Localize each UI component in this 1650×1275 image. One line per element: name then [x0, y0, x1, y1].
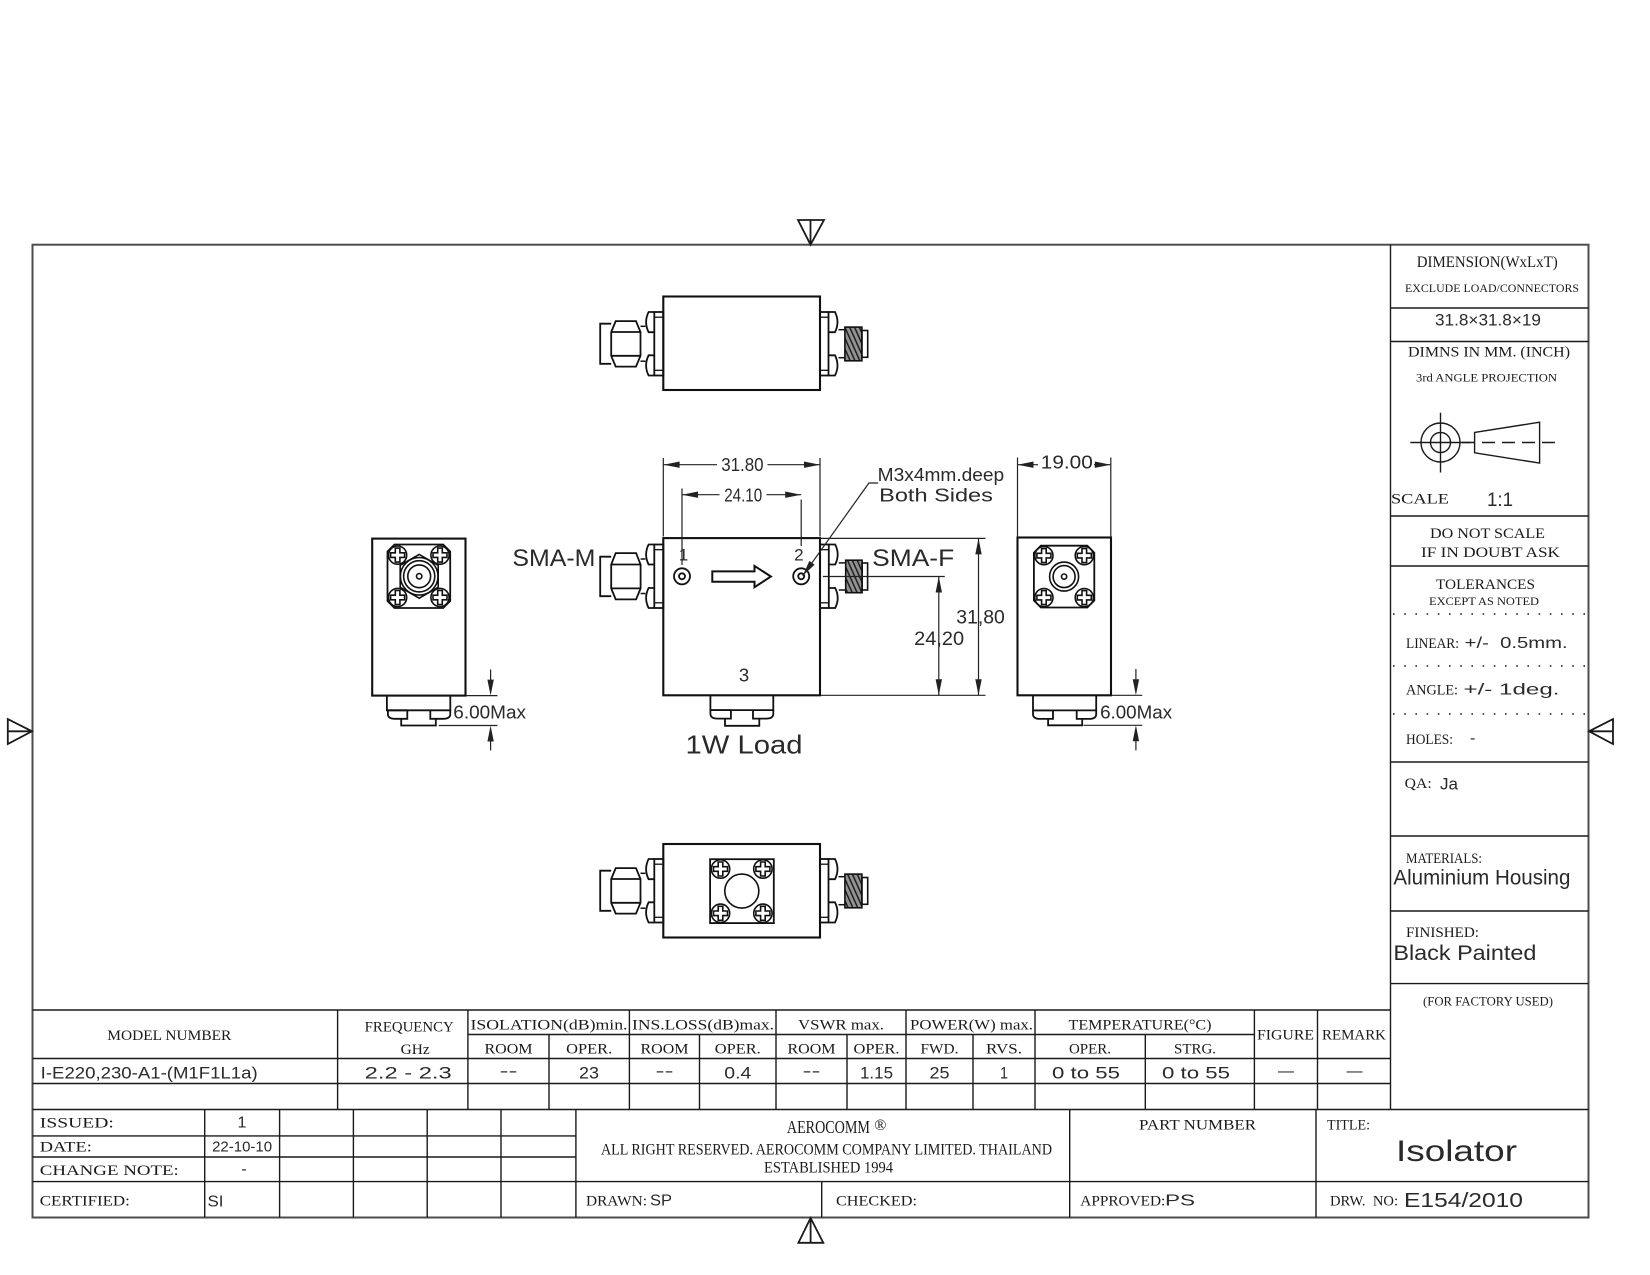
- svg-text:--: --: [656, 1063, 674, 1080]
- svg-text:SMA-F: SMA-F: [872, 545, 954, 572]
- dimension 24,20: [823, 577, 945, 696]
- svg-text:PART NUMBER: PART NUMBER: [1139, 1118, 1256, 1134]
- title block grid: [33, 1110, 1589, 1218]
- dotted separator 3: [1393, 713, 1585, 715]
- svg-text:OPER.: OPER.: [1069, 1042, 1111, 1058]
- bottom view load screw TR: [754, 860, 772, 878]
- left view screw TL: [389, 546, 407, 564]
- svg-text:Black Painted: Black Painted: [1393, 942, 1536, 965]
- svg-text:®: ®: [874, 1117, 886, 1134]
- bottom view SMA-M flange plate: [654, 859, 663, 923]
- svg-text:31,80: 31,80: [956, 608, 1005, 629]
- svg-text:31.80: 31.80: [721, 455, 763, 475]
- top view SMA-F flange ears: [829, 312, 838, 376]
- left view screw TR: [431, 546, 449, 564]
- svg-text:1:1: 1:1: [1487, 490, 1513, 511]
- svg-text:FWD.: FWD.: [921, 1042, 959, 1058]
- right view body: [1018, 538, 1112, 696]
- bottom view SMA-F threaded barrel: [845, 874, 862, 908]
- top view SMA-M hex nut: [611, 321, 640, 367]
- front view SMA-M hex nut: [611, 553, 640, 599]
- bottom view SMA-M plate lines: [654, 864, 663, 917]
- svg-text:--: --: [500, 1063, 518, 1080]
- svg-text:SMA-M: SMA-M: [512, 545, 595, 572]
- bottom view load screw BL: [711, 904, 729, 922]
- svg-text:DIMENSION(WxLxT): DIMENSION(WxLxT): [1417, 254, 1558, 271]
- svg-text:(FOR FACTORY USED): (FOR FACTORY USED): [1423, 995, 1553, 1009]
- svg-text:OPER.: OPER.: [854, 1042, 900, 1058]
- right panel grid: [1391, 245, 1589, 1110]
- svg-text:ROOM: ROOM: [788, 1042, 836, 1058]
- top view SMA-M plate lines: [654, 317, 663, 370]
- svg-text:HOLES:: HOLES:: [1406, 732, 1453, 748]
- bottom view SMA-F neck: [839, 877, 845, 905]
- svg-text:0 to 55: 0 to 55: [1052, 1064, 1120, 1083]
- svg-text:PS: PS: [1165, 1193, 1195, 1210]
- svg-text:TITLE:: TITLE:: [1327, 1118, 1370, 1134]
- svg-text:+/- 0.5mm.: +/- 0.5mm.: [1465, 635, 1568, 652]
- svg-text:EXCEPT AS NOTED: EXCEPT AS NOTED: [1429, 596, 1539, 608]
- svg-text:ESTABLISHED 1994: ESTABLISHED 1994: [764, 1160, 893, 1177]
- front view SMA-M pin: [600, 557, 611, 597]
- svg-text:MATERIALS:: MATERIALS:: [1406, 851, 1482, 867]
- svg-text:EXCLUDE LOAD/CONNECTORS: EXCLUDE LOAD/CONNECTORS: [1405, 283, 1579, 295]
- front view load feet: [710, 710, 773, 726]
- dimension 24.10: [682, 489, 801, 566]
- right view connector circles: [1050, 562, 1079, 591]
- registration mark top: [798, 220, 824, 245]
- dimension 31.80 top: [663, 458, 820, 537]
- right view screw TL: [1035, 547, 1053, 565]
- svg-text:24,20: 24,20: [914, 629, 964, 650]
- left view screw BR: [431, 588, 449, 606]
- svg-text:REMARK: REMARK: [1322, 1028, 1387, 1044]
- svg-text:DRW. NO:: DRW. NO:: [1330, 1194, 1398, 1210]
- svg-text:6.00Max: 6.00Max: [453, 703, 526, 723]
- svg-text:M3x4mm.deep: M3x4mm.deep: [878, 465, 1005, 485]
- bottom view SMA-F flange plate: [820, 859, 829, 923]
- bottom view load flange square: [710, 859, 774, 923]
- top view SMA-M pin: [600, 324, 611, 364]
- svg-text:OPER.: OPER.: [566, 1042, 612, 1058]
- svg-text:DO NOT SCALE: DO NOT SCALE: [1430, 526, 1545, 542]
- registration mark right: [1589, 719, 1613, 744]
- svg-text:CHANGE NOTE:: CHANGE NOTE:: [40, 1163, 179, 1179]
- svg-text:1: 1: [679, 545, 688, 564]
- projection symbol cone: [1462, 422, 1560, 463]
- front view screw hole 1: [674, 568, 690, 584]
- svg-text:--: --: [803, 1063, 821, 1080]
- svg-text:POWER(W) max.: POWER(W) max.: [910, 1018, 1033, 1034]
- bottom view body: [663, 844, 820, 938]
- left view body: [372, 539, 465, 696]
- svg-text:—: —: [1278, 1063, 1294, 1080]
- svg-text:I-E220,230-A1-(M1F1L1a): I-E220,230-A1-(M1F1L1a): [41, 1065, 258, 1083]
- front view SMA-F end cap: [862, 563, 868, 590]
- left view connector hex: [400, 554, 438, 598]
- top view SMA-F plate lines: [820, 317, 829, 370]
- svg-text:SCALE: SCALE: [1391, 492, 1449, 508]
- left view connector circles: [400, 558, 438, 596]
- top view SMA-F threaded barrel: [845, 327, 862, 361]
- bottom view SMA-F plate lines: [820, 864, 829, 917]
- svg-text:MODEL NUMBER: MODEL NUMBER: [107, 1028, 231, 1044]
- left view dim 6.00Max: [439, 670, 498, 751]
- top view SMA-M flange ears: [646, 312, 654, 376]
- svg-text:ROOM: ROOM: [641, 1042, 689, 1058]
- spec table grid: [33, 1010, 1589, 1110]
- front view SMA-F plate lines: [820, 550, 829, 603]
- top view SMA-M neck: [641, 326, 646, 361]
- svg-text:2.2 - 2.3: 2.2 - 2.3: [365, 1064, 452, 1083]
- svg-text:23: 23: [579, 1064, 599, 1083]
- svg-text:ALL RIGHT RESERVED. AEROCOMM C: ALL RIGHT RESERVED. AEROCOMM COMPANY LIM…: [601, 1142, 1052, 1159]
- svg-text:Both Sides: Both Sides: [879, 485, 993, 506]
- right view load feet: [1033, 710, 1096, 725]
- svg-text:ISOLATION(dB)min.: ISOLATION(dB)min.: [471, 1018, 628, 1034]
- right view dim 19.00: [1018, 458, 1111, 538]
- front view flow arrow: [712, 566, 771, 587]
- svg-text:SP: SP: [650, 1193, 672, 1210]
- right view screw BR: [1075, 589, 1093, 607]
- svg-text:-: -: [1470, 730, 1475, 747]
- svg-text:+/- 1deg.: +/- 1deg.: [1464, 682, 1560, 699]
- top view SMA-F neck: [839, 330, 845, 358]
- svg-text:2: 2: [794, 545, 803, 564]
- svg-text:ISSUED:: ISSUED:: [40, 1116, 114, 1132]
- svg-text:CHECKED:: CHECKED:: [836, 1194, 917, 1210]
- left view load feet: [388, 710, 450, 725]
- front view SMA-M plate lines: [654, 550, 663, 603]
- right view screw TR: [1075, 547, 1093, 565]
- dotted separator 2: [1393, 665, 1585, 667]
- svg-text:0 to 55: 0 to 55: [1162, 1064, 1230, 1083]
- svg-text:SI: SI: [208, 1194, 224, 1211]
- svg-text:Ja: Ja: [1440, 775, 1459, 794]
- front view SMA-F threaded barrel: [846, 560, 862, 593]
- svg-text:APPROVED:: APPROVED:: [1080, 1194, 1165, 1210]
- svg-text:RVS.: RVS.: [986, 1042, 1022, 1058]
- front view SMA-M neck: [641, 559, 646, 594]
- svg-text:1: 1: [238, 1115, 247, 1132]
- svg-text:IF IN DOUBT ASK: IF IN DOUBT ASK: [1421, 545, 1560, 561]
- bottom view load screw BR: [754, 904, 772, 922]
- svg-text:FREQUENCY: FREQUENCY: [365, 1020, 455, 1036]
- svg-text:31.8×31.8×19: 31.8×31.8×19: [1435, 311, 1541, 330]
- right view dim 6.00Max: [1084, 669, 1143, 750]
- svg-text:22-10-10: 22-10-10: [212, 1139, 272, 1156]
- front view SMA-M flange ears: [646, 545, 654, 609]
- svg-text:6.00Max: 6.00Max: [1100, 703, 1172, 723]
- svg-text:DIMNS IN MM. (INCH): DIMNS IN MM. (INCH): [1408, 345, 1570, 361]
- svg-text:Aluminium Housing: Aluminium Housing: [1393, 867, 1570, 890]
- svg-text:—: —: [1347, 1063, 1363, 1080]
- svg-text:25: 25: [930, 1064, 950, 1083]
- leader M3x4mm.deep: [803, 483, 879, 576]
- left view load bracket: [387, 696, 450, 711]
- svg-text:3rd ANGLE PROJECTION: 3rd ANGLE PROJECTION: [1416, 373, 1558, 385]
- front view load bracket: [710, 695, 773, 710]
- svg-text:QA:: QA:: [1405, 776, 1432, 792]
- front view SMA-F flange ears: [829, 545, 838, 609]
- dotted separator 1: [1393, 613, 1585, 615]
- svg-text:STRG.: STRG.: [1174, 1042, 1216, 1058]
- front view SMA-F flange plate: [820, 545, 829, 609]
- svg-text:1.15: 1.15: [860, 1064, 893, 1083]
- left view screw BL: [389, 588, 407, 606]
- front view body: [663, 538, 820, 695]
- svg-text:TEMPERATURE(°C): TEMPERATURE(°C): [1069, 1018, 1212, 1034]
- right view flange square: [1034, 546, 1094, 608]
- svg-text:E154/2010: E154/2010: [1404, 1189, 1523, 1212]
- bottom view SMA-M flange ears: [646, 859, 654, 923]
- svg-text:1W Load: 1W Load: [686, 730, 803, 760]
- top view body: [663, 297, 820, 391]
- svg-text:DATE:: DATE:: [40, 1140, 92, 1156]
- svg-text:AEROCOMM: AEROCOMM: [787, 1117, 870, 1137]
- bottom view SMA-F end cap: [862, 878, 868, 905]
- svg-text:LINEAR:: LINEAR:: [1406, 636, 1459, 652]
- svg-text:FIGURE: FIGURE: [1257, 1028, 1314, 1044]
- front view SMA-M flange plate: [654, 545, 663, 609]
- bottom view SMA-M pin: [600, 871, 611, 911]
- frame border: [33, 245, 1589, 1218]
- svg-text:DRAWN:: DRAWN:: [586, 1194, 647, 1210]
- left view flange square: [388, 545, 451, 609]
- svg-text:24.10: 24.10: [724, 485, 762, 505]
- svg-text:-: -: [241, 1161, 246, 1178]
- registration mark bottom: [798, 1218, 823, 1243]
- svg-text:TOLERANCES: TOLERANCES: [1436, 577, 1535, 593]
- projection symbol circle: [1410, 413, 1470, 473]
- right view screw BL: [1035, 589, 1053, 607]
- svg-text:Isolator: Isolator: [1396, 1135, 1517, 1168]
- svg-text:3: 3: [739, 665, 749, 686]
- dimension 31,80 right: [820, 538, 986, 695]
- top view SMA-F end cap: [862, 331, 868, 358]
- bottom view SMA-F flange ears: [829, 859, 838, 923]
- registration mark left: [8, 719, 32, 744]
- bottom view SMA-M hex nut: [611, 868, 640, 914]
- bottom view SMA-M neck: [641, 873, 646, 908]
- front view screw hole 2: [793, 568, 809, 584]
- svg-text:OPER.: OPER.: [715, 1042, 761, 1058]
- bottom view load center hole: [725, 874, 759, 908]
- svg-text:19.00: 19.00: [1041, 453, 1093, 473]
- svg-text:1: 1: [1000, 1064, 1008, 1083]
- svg-text:ANGLE:: ANGLE:: [1406, 683, 1458, 699]
- bottom view load screw TL: [711, 860, 729, 878]
- svg-text:ROOM: ROOM: [485, 1042, 533, 1058]
- front view SMA-F neck: [839, 563, 846, 590]
- svg-text:GHz: GHz: [401, 1042, 431, 1058]
- top view SMA-M flange plate: [654, 312, 663, 376]
- svg-text:0.4: 0.4: [724, 1064, 751, 1083]
- svg-text:VSWR max.: VSWR max.: [798, 1018, 884, 1034]
- svg-text:FINISHED:: FINISHED:: [1406, 925, 1479, 941]
- svg-text:INS.LOSS(dB)max.: INS.LOSS(dB)max.: [632, 1018, 774, 1034]
- svg-text:CERTIFIED:: CERTIFIED:: [40, 1194, 130, 1210]
- right view load bracket: [1033, 695, 1096, 710]
- top view SMA-F flange plate: [820, 312, 829, 376]
